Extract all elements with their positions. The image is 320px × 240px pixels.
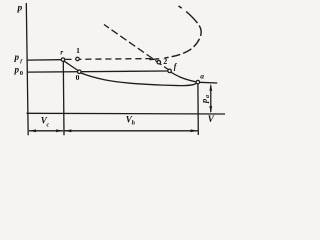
dashed horizontal line r-1 rightwards (65, 58, 151, 61)
point 1 (76, 57, 80, 61)
svg-text:a: a (200, 72, 204, 81)
lower pumping-loop curve 0 to a (81, 73, 198, 86)
svg-text:0: 0 (76, 73, 80, 82)
point 0 (78, 70, 82, 74)
svg-text:1: 1 (76, 46, 80, 55)
svg-text:h: h (132, 120, 136, 126)
V_h dimension line (64, 130, 197, 132)
p_f level line (27, 59, 61, 61)
svg-text:f: f (20, 59, 23, 65)
point r (61, 58, 65, 62)
V_c right arrowhead (56, 129, 63, 132)
V_c left arrowhead (29, 129, 36, 132)
p_a up arrowhead (209, 84, 212, 91)
volume axis (x-axis) (27, 112, 226, 115)
svg-text:c: c (47, 122, 50, 128)
V_h right arrowhead (191, 129, 198, 132)
V_h left arrowhead (64, 129, 71, 132)
point f (168, 69, 172, 73)
steep dashed expansion line through 2 to f (104, 25, 168, 70)
svg-text:p: p (17, 4, 23, 14)
svg-text:2: 2 (163, 57, 167, 66)
diagonal line r to 0 (64, 61, 79, 71)
svg-text:a: a (205, 95, 211, 98)
svg-text:f: f (174, 62, 178, 71)
dashed dome curve (149, 6, 201, 60)
point 2 (157, 60, 161, 64)
svg-text:0: 0 (20, 70, 23, 77)
V_c dimension line (29, 130, 63, 132)
horizontal reference line from a (200, 81, 218, 84)
p_a dimension line (210, 86, 212, 113)
point a (196, 80, 200, 84)
svg-text:p: p (199, 99, 209, 104)
svg-text:p: p (14, 52, 20, 62)
svg-text:p: p (14, 64, 20, 74)
svg-text:V: V (208, 114, 215, 124)
p_0 level line through 0 to f (27, 71, 167, 72)
extension vertical below point a (197, 84, 199, 135)
p_a label (rotated) (199, 95, 211, 104)
p_a down arrowhead (209, 106, 212, 113)
extension vertical below point r (V_c boundary) (62, 62, 65, 136)
pressure axis (y-axis) (26, 3, 28, 135)
blowdown curve f to a (171, 72, 197, 82)
svg-text:r: r (60, 48, 63, 57)
